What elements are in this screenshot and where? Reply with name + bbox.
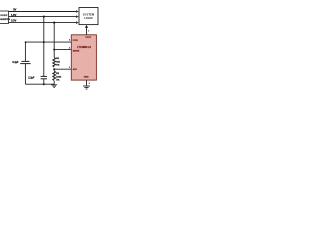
svg-text:GND: GND (84, 77, 89, 79)
svg-text:0.1µF: 0.1µF (12, 61, 19, 64)
svg-text:LTC1688-1.8: LTC1688-1.8 (77, 47, 91, 49)
svg-text:3.3V: 3.3V (11, 18, 17, 22)
svg-text:ADJ: ADJ (73, 68, 77, 71)
svg-text:4: 4 (69, 46, 71, 49)
svg-text:R1: R1 (56, 58, 60, 60)
svg-text:5: 5 (69, 39, 71, 41)
svg-text:2.2µF: 2.2µF (28, 77, 35, 80)
svg-text:PVIN: PVIN (73, 40, 78, 42)
svg-text:1.8V: 1.8V (11, 13, 17, 17)
svg-text:100k: 100k (56, 76, 62, 78)
svg-text:1: 1 (88, 31, 90, 33)
svg-text:2: 2 (89, 83, 91, 85)
svg-text:DC/DC: DC/DC (1, 15, 8, 17)
svg-text:1%: 1% (56, 80, 59, 82)
svg-text:CONVERTER: CONVERTER (0, 19, 11, 21)
svg-text:LOGIC: LOGIC (84, 16, 93, 20)
svg-text:VOUT: VOUT (85, 37, 91, 39)
svg-text:5V: 5V (13, 8, 16, 12)
svg-text:3: 3 (69, 67, 71, 69)
svg-text:10k: 10k (56, 61, 60, 63)
svg-text:SENSE: SENSE (73, 51, 80, 53)
svg-text:R2: R2 (56, 73, 60, 75)
svg-text:1%: 1% (56, 65, 59, 67)
